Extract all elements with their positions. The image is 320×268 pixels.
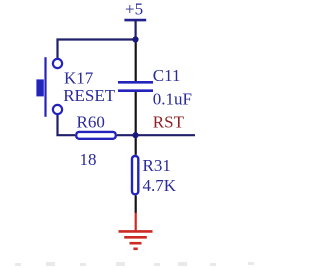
svg-text:C11: C11 — [153, 66, 181, 85]
svg-text:18: 18 — [80, 150, 97, 169]
svg-text:RESET: RESET — [63, 86, 116, 105]
svg-text:RST: RST — [153, 113, 185, 132]
svg-text:R31: R31 — [143, 156, 171, 175]
svg-text:+5: +5 — [125, 0, 143, 18]
svg-text:4.7K: 4.7K — [143, 176, 177, 195]
svg-text:0.1uF: 0.1uF — [153, 90, 192, 109]
svg-text:R60: R60 — [77, 113, 105, 132]
svg-text:K17: K17 — [64, 68, 94, 87]
